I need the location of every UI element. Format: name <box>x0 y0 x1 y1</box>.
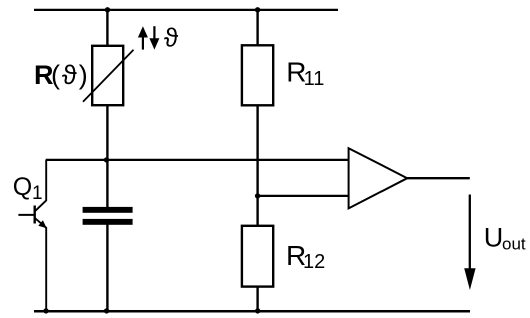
resistor R(theta) thermistor body <box>83 46 134 105</box>
node A junction <box>104 157 109 162</box>
svg-text:(ϑ): (ϑ) <box>51 60 90 90</box>
wire node B horizontal (R11/R12 tap to op-amp input) <box>258 195 350 197</box>
svg-text:12: 12 <box>303 251 325 273</box>
resistor R12 body <box>242 226 273 287</box>
op-amp U1 <box>349 148 408 208</box>
wire top supply rail <box>34 9 338 11</box>
wire op-amp output <box>406 177 470 179</box>
capacitor C1 plates <box>83 207 133 225</box>
node B junction <box>255 193 260 198</box>
wire middle branch vertical (R11/R12) <box>256 10 258 311</box>
resistor R11 body <box>242 45 273 105</box>
node bottom-right junction <box>255 308 260 313</box>
node bottom emitter junction <box>43 308 48 313</box>
svg-text:out: out <box>502 235 526 254</box>
svg-text:ϑ: ϑ <box>164 23 179 53</box>
node top-left junction <box>105 7 110 12</box>
svg-text:11: 11 <box>304 68 325 90</box>
transistor Q1 <box>18 160 46 311</box>
svg-text:U: U <box>484 223 504 253</box>
wire bottom rail <box>34 310 470 313</box>
wire node A horizontal (divider tap to op-amp input) <box>46 159 350 161</box>
Uout voltage arrow <box>464 195 475 291</box>
node bottom-left junction <box>104 308 109 313</box>
svg-text:1: 1 <box>32 183 43 204</box>
svg-text:Q: Q <box>13 173 32 201</box>
wire left branch vertical (thermistor/capacitor) <box>106 10 108 311</box>
temperature arrows up/down <box>138 26 160 49</box>
node top-right junction <box>255 7 260 12</box>
